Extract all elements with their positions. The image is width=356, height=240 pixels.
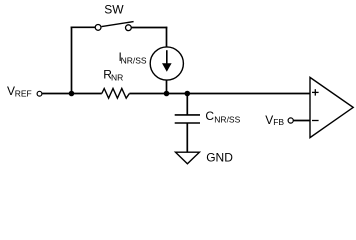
switch SW [95,22,133,31]
terminal VREF [37,91,42,96]
terminal VFB [288,118,293,123]
current source INR/SS [150,47,183,80]
node A junction dot [69,91,75,97]
svg-text:GND: GND [206,151,233,165]
svg-text:NR/SS: NR/SS [121,55,147,65]
svg-text:SW: SW [104,2,124,16]
svg-text:V: V [265,113,273,127]
label RNR [103,68,123,83]
wire right vertical lower (current source to main wire) [166,80,168,93]
svg-text:C: C [205,109,214,123]
op-amp U1 [310,77,353,137]
ground [176,152,200,164]
wire main right (resistor to op-amp) [129,93,310,95]
node C junction dot (capacitor tap) [185,91,191,97]
svg-text:NR/SS: NR/SS [214,114,240,124]
wire right vertical upper (corner down to current source) [166,27,168,47]
svg-text:REF: REF [15,89,32,99]
label VFB [265,113,284,127]
resistor RNR [102,89,130,99]
capacitor CNR/SS [175,94,200,153]
label INR/SS [119,50,147,65]
wire top left (to switch contact) [71,26,95,28]
wire VFB to op-amp [294,120,311,122]
label CNR/SS [205,109,240,124]
wire left vertical (node A up to switch) [71,27,73,94]
label VREF [7,84,32,98]
svg-text:FB: FB [273,117,284,127]
node B junction dot (current source tap) [164,91,170,97]
wire main left (VREF to resistor) [42,93,102,95]
wire top right (switch to current source corner) [132,27,168,29]
svg-text:NR: NR [111,73,123,83]
